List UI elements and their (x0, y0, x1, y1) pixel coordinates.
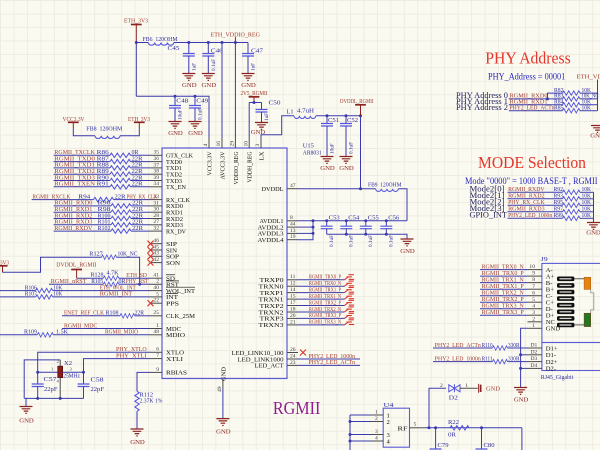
wire J9 GND pin 1 down (521, 328, 528, 387)
wire AVDDL rail (298, 220, 407, 222)
ground for C49 (189, 122, 202, 129)
svg-text:25MHz: 25MHz (63, 373, 80, 380)
junction 2V5_RGMII (253, 101, 256, 104)
junction D1- (519, 353, 522, 356)
ground for crystal (25, 398, 27, 406)
wire AVDDL ground rail (327, 234, 407, 239)
U15 pin 9 RBIAS (150, 367, 187, 377)
junction C57 ground (36, 397, 39, 400)
U15 pin 45 SIN (150, 244, 177, 254)
RJ45 jack outline (591, 289, 594, 313)
U15 pin 37 TXD1 (150, 162, 182, 172)
J9 pin 1 GND (528, 323, 561, 333)
svg-text:18: 18 (290, 306, 296, 312)
U4 pin 2 (350, 416, 390, 426)
resistor R82 10K (548, 87, 598, 99)
svg-text:22R: 22R (115, 193, 127, 200)
U15 pin 19 AVDDL4 (258, 234, 299, 244)
J9 pin 9 A+ (528, 271, 555, 281)
svg-text:C48: C48 (176, 98, 188, 105)
svg-text:2: 2 (387, 419, 390, 426)
svg-text:CLK_25M: CLK_25M (166, 313, 195, 320)
svg-text:15: 15 (290, 294, 296, 300)
wire / net label RGMII_TRX3_P (J9 side) (480, 309, 528, 316)
wire RBIAS to R112 (137, 372, 150, 391)
U4 pin 1 (350, 410, 390, 420)
svg-text:PHY2_LED_1000n: PHY2_LED_1000n (435, 355, 482, 362)
wire pin49 to ground (222, 389, 224, 419)
svg-text:RGMII_MDIO: RGMII_MDIO (105, 329, 138, 336)
junction C52 (345, 114, 348, 117)
svg-text:RGMII_TRX3_N: RGMII_TRX3_N (309, 319, 341, 326)
U15 pin 22 PPS (150, 298, 179, 308)
U15 pin 31 RXD0 (150, 200, 184, 210)
wire / net label RGMII_TRX1_P (IC side) (298, 286, 345, 293)
svg-text:26: 26 (290, 347, 296, 353)
wire ETH_3V3 rail to FB6 (136, 42, 148, 44)
svg-text:PPS: PPS (166, 301, 179, 308)
svg-text:R127: R127 (89, 251, 103, 258)
svg-text:C49: C49 (196, 98, 208, 105)
ground for R112 (131, 429, 144, 436)
junction cap ground (364, 233, 367, 236)
U15 pin 20 TRXP3 (260, 313, 299, 323)
svg-text:3: 3 (532, 310, 535, 316)
ground for C48 (169, 122, 182, 129)
svg-text:2: 2 (156, 279, 159, 285)
resistor R95 10K on net PHY_RX_CLK (470, 197, 594, 208)
svg-text:49: 49 (217, 386, 223, 392)
U15 pin 3 LX (255, 138, 265, 161)
svg-text:10: 10 (243, 141, 249, 147)
svg-text:10K: 10K (582, 212, 592, 219)
svg-text:7: 7 (532, 284, 535, 290)
svg-text:5: 5 (532, 297, 535, 303)
resistor R111 330R on net PHY2_LED_1000n (433, 355, 528, 363)
U15 pin 46 SIP (150, 238, 177, 248)
svg-text:19: 19 (290, 234, 296, 240)
junction U4 bus (349, 440, 352, 443)
U15 pin 8 AVDDL1 (260, 215, 299, 225)
svg-text:0.1uF: 0.1uF (368, 235, 374, 247)
svg-text:0.1uF: 0.1uF (329, 235, 335, 247)
junction crystal pin4 ground (59, 397, 62, 400)
U15 pin 28 RXD2 (150, 213, 183, 223)
wire C48/C49 rail (136, 96, 209, 137)
wire LX to L1 (261, 116, 294, 138)
svg-text:6: 6 (156, 347, 159, 353)
wire VDDIO_REG down to pin 29 (234, 43, 236, 138)
no-connect X (148, 247, 154, 253)
svg-text:17: 17 (290, 300, 296, 306)
U15 pin 42 SON (150, 257, 180, 267)
U15 pin 13 AVDDL3 (258, 228, 299, 238)
no-connect X (148, 260, 154, 266)
resistor R105 0R on net RGMII_nRST / PHY_RST (49, 278, 150, 286)
junction C53 top (325, 219, 328, 222)
svg-text:330R: 330R (508, 342, 520, 349)
differential pair directive (345, 307, 355, 312)
svg-text:R99: R99 (554, 212, 564, 219)
svg-text:C54: C54 (348, 215, 359, 222)
svg-text:D4: D4 (531, 363, 538, 369)
wire / net label RGMII_TRX2_N (IC side) (298, 306, 345, 313)
ground for mode resistors (587, 223, 600, 230)
junction AVDDL3 (312, 232, 315, 235)
svg-text:GND: GND (320, 165, 335, 172)
U15 pin 11 TRXP0 (260, 274, 299, 284)
svg-text:AR8031: AR8031 (303, 149, 322, 156)
svg-text:41: 41 (153, 273, 159, 279)
svg-text:R91: R91 (97, 181, 109, 188)
resistor R22 0R (448, 419, 469, 438)
wire D2 cathode to GND port (460, 387, 478, 389)
svg-text:5: 5 (156, 291, 159, 297)
U4 pin 4 (350, 436, 391, 446)
svg-text:11: 11 (290, 274, 296, 280)
U15 pin 24 LED_LINK1000 (238, 353, 299, 363)
svg-text:21: 21 (290, 319, 296, 325)
svg-text:0R: 0R (448, 431, 457, 438)
svg-text:1: 1 (532, 323, 535, 329)
connector J9 RJ45_Gigabit body (542, 263, 600, 342)
svg-text:0.1uF: 0.1uF (389, 235, 395, 247)
J9 pin 10 A- (528, 264, 553, 274)
resistor R101 on net RGMII_RXD3 (54, 219, 150, 227)
svg-text:TX_EN: TX_EN (166, 184, 186, 191)
svg-text:22R: 22R (132, 181, 144, 188)
wire AVCC3.3V down to pin 16 (221, 43, 223, 138)
U15 pin 39 TXD3 (150, 175, 183, 185)
wire / net label RGMII_TRX0_P (J9 side) (480, 270, 528, 277)
capacitor C54 0.1uF (340, 215, 359, 247)
svg-text:0.1uF: 0.1uF (211, 59, 217, 71)
wire R127 to PHY_RST net (117, 257, 140, 284)
junction cap ground (385, 233, 388, 236)
svg-text:D2: D2 (449, 394, 458, 401)
svg-text:C45: C45 (168, 45, 180, 52)
svg-text:20: 20 (290, 313, 296, 319)
svg-text:FB6 120OHM: FB6 120OHM (143, 36, 178, 43)
svg-text:MODE Selection: MODE Selection (478, 153, 586, 172)
U4 component body (383, 408, 409, 447)
wire DVDDL rail down to pin 47 row (360, 116, 362, 189)
junction C51 (326, 114, 329, 117)
resistor R88 on net RGMII_TXD1 (54, 162, 150, 170)
svg-text:RGMII_RXDV: RGMII_RXDV (54, 225, 92, 232)
svg-text:2: 2 (440, 383, 443, 389)
svg-text:C58: C58 (91, 377, 104, 384)
U15 pin 10 VDDH_REG (243, 138, 253, 183)
junction C45 (187, 41, 190, 44)
resistor R91 on net RGMII_TXEN (54, 181, 150, 189)
svg-text:D1: D1 (531, 343, 538, 349)
svg-text:PHY Address 2: PHY Address 2 (456, 102, 508, 112)
svg-text:C56: C56 (388, 215, 399, 222)
wire / net label RGMII_TRX1_N (J9 side) (480, 276, 528, 283)
svg-text:22pF: 22pF (91, 386, 105, 393)
svg-text:10: 10 (529, 264, 535, 270)
junction C56 top (385, 219, 388, 222)
svg-text:D2: D2 (531, 349, 538, 355)
svg-text:VCC3.3V: VCC3.3V (206, 151, 213, 175)
junction ETH_VDDIO_REG (234, 41, 237, 44)
resistor R96 on net RGMII_RXD0 (54, 200, 150, 208)
svg-text:C79: C79 (438, 442, 449, 449)
svg-text:FB9 120OHM: FB9 120OHM (368, 182, 402, 189)
svg-text:2: 2 (532, 316, 535, 322)
svg-text:DVDDL_RGMII: DVDDL_RGMII (56, 261, 96, 268)
junction AVCC drop (221, 41, 224, 44)
J9 pin 3 D+ (528, 310, 555, 320)
svg-text:47: 47 (290, 183, 296, 189)
junction AVDDL2 (312, 226, 315, 229)
svg-text:RJ45_Gigabit: RJ45_Gigabit (541, 374, 574, 381)
capacitor C57 22pF (32, 372, 58, 398)
U15 pin 27 RXD3 (150, 219, 184, 229)
wire / net label RGMII_TRX3_N (J9 side) (480, 303, 528, 310)
U15 pin 26 LED_LINK10_100 (232, 347, 299, 357)
svg-text:C55: C55 (368, 215, 379, 222)
power port GND (bar style) (479, 384, 501, 393)
wire / net label RGMII_TRX3_P (IC side) (298, 312, 345, 319)
differential pair directive (345, 320, 355, 325)
capacitor C58 22pF (78, 372, 105, 398)
wire AVDDL2 to bus (298, 226, 313, 228)
junction RF/D2 (428, 426, 431, 429)
differential pair directive (345, 288, 355, 293)
J9 pin 5 C+ (528, 297, 555, 307)
svg-text:43: 43 (153, 251, 159, 257)
resistor R86 on net RGMII_TXCLK (54, 149, 150, 157)
svg-text:ETH_VDDIO_REG: ETH_VDDIO_REG (577, 73, 600, 80)
wire / net label PHY_XTLO (38, 346, 150, 372)
wire ETH_3V3 to R127 (3, 257, 102, 272)
svg-text:9: 9 (156, 367, 159, 373)
junction C54 top (345, 219, 348, 222)
crystal X2 25MHz (38, 359, 84, 398)
svg-text:4: 4 (375, 436, 378, 442)
svg-text:ENET_REF_CLK: ENET_REF_CLK (64, 310, 104, 317)
differential pair directive (345, 300, 355, 305)
junction R127/PHY_RST (138, 283, 141, 286)
svg-text:40: 40 (153, 285, 159, 291)
junction DVDDL drop (359, 187, 362, 190)
svg-text:C80: C80 (484, 442, 495, 449)
svg-text:RF: RF (398, 425, 408, 432)
wire R112 to ground (136, 411, 138, 429)
svg-text:0.1uF: 0.1uF (349, 235, 355, 247)
svg-text:D3: D3 (531, 356, 538, 362)
svg-text:38: 38 (153, 169, 159, 175)
svg-text:8: 8 (532, 277, 535, 283)
svg-text:PHY2_LED_ACTn: PHY2_LED_ACTn (510, 105, 556, 112)
svg-text:32: 32 (153, 226, 159, 232)
wire / net label RGMII_TRX3_N (IC side) (298, 319, 345, 326)
svg-text:RGMII_INT: RGMII_INT (100, 291, 133, 298)
svg-text:35: 35 (153, 150, 159, 156)
svg-text:31: 31 (153, 200, 159, 206)
svg-text:R111: R111 (482, 355, 493, 362)
U15 pin 30 RXD1 (150, 207, 183, 217)
svg-text:4.7K: 4.7K (107, 270, 120, 277)
resistor R108 22R on net ENET_REF_CLK (62, 310, 150, 318)
junction cap ground (345, 233, 348, 236)
junction U4 bus (349, 420, 352, 423)
U15 pin 36 TXD0 (150, 156, 183, 166)
no-connect X (148, 253, 154, 259)
svg-text:23: 23 (290, 360, 296, 366)
U15 pin 38 TXD2 (150, 169, 182, 179)
svg-text:10uF: 10uF (329, 143, 335, 154)
differential pair directive (345, 313, 355, 318)
junction C48 (174, 95, 177, 98)
svg-text:GND: GND (514, 397, 529, 404)
svg-text:36: 36 (153, 156, 159, 162)
svg-text:2: 2 (375, 416, 378, 422)
wire / net label RGMII_TRX1_N (IC side) (298, 293, 345, 300)
svg-text:27: 27 (153, 219, 159, 225)
U15 pin 33 RX_CLK (150, 194, 190, 204)
junction crystal right (82, 371, 85, 374)
svg-text:0.1uF: 0.1uF (198, 108, 204, 120)
svg-text:37: 37 (153, 162, 159, 168)
wire FB8 to ETH_3V3 (120, 128, 139, 136)
svg-text:6: 6 (532, 290, 535, 296)
svg-text:RGMII_TXEN: RGMII_TXEN (54, 181, 95, 188)
svg-text:J9: J9 (541, 256, 548, 263)
svg-text:44: 44 (290, 222, 296, 228)
resistor R93 10K on net RGMII_RXD2 (470, 190, 594, 201)
ground for C46 (202, 74, 215, 81)
svg-text:39: 39 (153, 175, 159, 181)
svg-text:28: 28 (153, 213, 159, 219)
svg-text:C57: C57 (44, 376, 57, 383)
svg-text:GND: GND (19, 418, 34, 425)
resistor R99 10K on net PHY2_LED_1000n (470, 210, 594, 221)
diode D2 TVS (440, 383, 468, 401)
svg-text:LX: LX (258, 151, 265, 160)
resistor R106 10K on net ETH_WOL_INT (0, 284, 150, 292)
differential pair directive (345, 294, 355, 299)
svg-text:VDDIO_REG: VDDIO_REG (233, 151, 240, 184)
svg-text:22: 22 (153, 298, 159, 304)
wire D2 branch (429, 388, 446, 428)
svg-text:PHY_Address = 00001: PHY_Address = 00001 (488, 71, 565, 81)
svg-text:10K: 10K (582, 105, 592, 112)
ground under U15 (216, 419, 229, 426)
svg-text:GND: GND (188, 130, 203, 137)
wire AVDDL3 to bus (298, 232, 313, 234)
wire D2- to ground rail (521, 367, 528, 369)
U15 pin 16 AVCC3.3V (216, 138, 226, 180)
RJ45 green LED (584, 313, 591, 326)
wire ETH_3V3 down to C48/C49 rail (135, 43, 137, 97)
ground (right edge, clipped) (591, 126, 600, 133)
no-connect X on pin 26 (300, 350, 306, 356)
J9 pin 2 NC (528, 316, 556, 326)
capacitor C55 0.1uF (360, 215, 379, 247)
svg-text:22R: 22R (135, 310, 145, 317)
J9 pin D3 D2+ (528, 356, 558, 366)
junction C46 (207, 41, 210, 44)
junction DVDDL_RGMII (359, 114, 362, 117)
svg-text:GND: GND (182, 82, 197, 89)
svg-text:1: 1 (375, 410, 378, 416)
U15 pin 17 TRXP2 (260, 300, 299, 310)
junction C55 top (364, 219, 367, 222)
resistor R109 1.5K on net RGMII_MDIO (0, 329, 150, 337)
resistor R87 on net RGMII_TXD0 (54, 155, 150, 163)
svg-text:1uF: 1uF (251, 63, 257, 71)
svg-text:1: 1 (156, 323, 159, 329)
svg-text:GND: GND (586, 230, 600, 237)
wire DVDDL_RGMII to R128 (77, 277, 104, 279)
svg-text:PHY2_LED_1000n: PHY2_LED_1000n (508, 212, 553, 219)
resistor R112 2.37K 1% (135, 391, 163, 411)
resistor R100 on net RGMII_RXD2 (54, 212, 150, 220)
U15 pin 12 TRXN0 (259, 281, 299, 291)
no-connect X (148, 300, 154, 306)
svg-text:24: 24 (290, 353, 296, 359)
wire ETH_VDDIO rail (right edge) (597, 80, 599, 111)
svg-text:22pF: 22pF (44, 386, 58, 393)
svg-text:GND: GND (130, 439, 145, 446)
U15 pin 2 RST (150, 279, 179, 289)
svg-text:46: 46 (153, 238, 159, 244)
junction C49 (194, 95, 197, 98)
svg-text:8: 8 (290, 215, 293, 221)
wire / net label RGMII_TRX0_N (J9 side) (480, 263, 528, 270)
svg-text:PHY_XTLI: PHY_XTLI (116, 352, 147, 359)
svg-text:RGMII: RGMII (273, 398, 321, 418)
U15 pin 6 XTLO (150, 347, 184, 357)
J9 pin D4 D2- (528, 363, 556, 373)
U15 pin 35 GTX_CLK (150, 150, 193, 160)
wire VDDIO rail (174, 42, 248, 44)
no-connect X (148, 241, 154, 247)
U15 pin 4 VCC3.3V (203, 138, 213, 176)
svg-text:R107: R107 (25, 291, 37, 298)
RJ45 LED link wire top (574, 278, 584, 280)
wire / net label RGMII_TRX2_P (J9 side) (480, 296, 528, 303)
ground for C45 (182, 74, 195, 81)
svg-text:9: 9 (532, 271, 535, 277)
svg-text:GND: GND (339, 165, 354, 172)
J9 pin D2 D1- (528, 349, 556, 359)
wire FB9 to AVDDL rail (398, 189, 407, 221)
wire D1- to ground rail (521, 354, 528, 356)
U15 pin 7 XTLI (150, 353, 183, 363)
svg-text:RGMII_MDC: RGMII_MDC (64, 322, 98, 329)
U15 pin 49 GND (217, 367, 228, 392)
svg-text:R110: R110 (482, 342, 493, 349)
resistor R85 10K on net PHY2_LED_ACTn (456, 102, 598, 113)
svg-text:RBIAS: RBIAS (166, 370, 187, 377)
junction at ETH_3V3 / FB6 (135, 41, 138, 44)
svg-text:R108: R108 (106, 310, 119, 317)
svg-text:29: 29 (230, 141, 236, 147)
svg-text:GND: GND (590, 133, 600, 140)
wire VDDH_REG down to pin 10 (248, 103, 250, 138)
svg-text:22R: 22R (132, 225, 144, 232)
J9 pin 7 B+ (528, 284, 555, 294)
resistor R98 on net RGMII_RXD1 (54, 206, 150, 214)
U4 pin 3 (350, 429, 391, 439)
junction R82/RXD0 (546, 97, 549, 100)
svg-text:TRXN3: TRXN3 (259, 322, 285, 329)
U15 pin 34 TX_EN (150, 181, 186, 191)
